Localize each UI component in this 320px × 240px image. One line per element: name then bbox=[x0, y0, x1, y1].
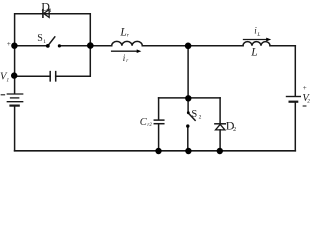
arrow iL head bbox=[266, 38, 271, 42]
switch S1 contact right bbox=[58, 44, 61, 47]
wire bottom rail bbox=[15, 150, 296, 152]
switch S1 contact left bbox=[46, 44, 50, 48]
diode D2 triangle bbox=[216, 124, 225, 129]
battery V1 plate short bbox=[11, 97, 19, 99]
battery V1 plate long bbox=[7, 101, 22, 103]
svg-text:+: + bbox=[303, 84, 307, 92]
svg-text:r: r bbox=[127, 33, 130, 39]
svg-text:L: L bbox=[250, 46, 257, 58]
capacitor snubber right plate bbox=[55, 72, 57, 81]
battery V2 plate long bbox=[287, 96, 301, 98]
capacitor snubber left plate bbox=[49, 72, 51, 81]
node dot junction B bbox=[87, 42, 94, 49]
node dot bottom S2 bbox=[185, 148, 191, 154]
switch S1 blade bbox=[48, 37, 55, 46]
diode D1 triangle bbox=[44, 10, 50, 18]
switch S2 contact bottom bbox=[186, 124, 189, 127]
svg-text:L: L bbox=[256, 32, 260, 38]
wire S1 left bbox=[15, 45, 48, 47]
wire left rail lower bbox=[14, 106, 16, 151]
svg-text:+: + bbox=[7, 39, 11, 48]
wire node A to L bbox=[188, 45, 243, 47]
wire cap row right bbox=[56, 46, 91, 76]
battery V1 plate short thick bbox=[11, 104, 19, 106]
svg-text:2: 2 bbox=[233, 127, 236, 133]
wire right rail upper bbox=[294, 46, 296, 96]
wire D2 branch upper bbox=[219, 98, 221, 124]
wire junction to Lr bbox=[90, 45, 111, 47]
wire right rail lower bbox=[294, 103, 296, 151]
wire node A down bbox=[187, 46, 189, 98]
capacitor Cr2 bottom plate bbox=[154, 123, 164, 125]
wire L to right rail bbox=[270, 45, 295, 47]
wire S1 right to junction bbox=[59, 45, 90, 47]
svg-text:r: r bbox=[126, 59, 128, 64]
wire Cr2 branch lower bbox=[158, 124, 160, 150]
svg-text:1: 1 bbox=[6, 77, 9, 83]
inductor Lr bbox=[112, 41, 143, 45]
minus sign V2 bbox=[303, 105, 306, 107]
svg-text:L: L bbox=[119, 26, 126, 38]
wire cap row left bbox=[15, 75, 51, 77]
switch S2 blade bbox=[189, 113, 196, 120]
node dot bottom Cr2 bbox=[155, 148, 161, 154]
wire left rail upper bbox=[14, 46, 16, 94]
arrow ir head bbox=[137, 49, 142, 53]
svg-text:S: S bbox=[37, 33, 43, 44]
svg-text:1: 1 bbox=[43, 39, 46, 45]
arrow ir shaft bbox=[112, 50, 138, 52]
node dot bottom D2 bbox=[217, 148, 223, 154]
wire D2 branch lower bbox=[219, 130, 221, 151]
svg-text:S: S bbox=[191, 109, 197, 120]
node dot left top bbox=[11, 43, 17, 49]
diode D1 cathode bar bbox=[42, 10, 44, 18]
minus sign V1 bbox=[1, 94, 4, 96]
wire Lr to node A bbox=[142, 45, 188, 47]
wire middle row bbox=[159, 97, 221, 99]
wire S2 branch lower bbox=[187, 126, 189, 151]
node dot V1 bbox=[11, 72, 17, 78]
wire Cr2 branch upper bbox=[158, 98, 160, 120]
node dot middle row bbox=[185, 95, 191, 101]
wire S2 branch upper bbox=[187, 98, 189, 112]
svg-text:2: 2 bbox=[199, 115, 202, 121]
battery V2 plate short thick bbox=[290, 101, 298, 103]
svg-text:1: 1 bbox=[49, 8, 52, 14]
node dot A bbox=[185, 43, 192, 50]
diode D2 cathode bar bbox=[215, 123, 226, 125]
arrow iL shaft bbox=[244, 39, 268, 41]
switch S2 contact top bbox=[187, 111, 190, 114]
svg-text:2: 2 bbox=[307, 99, 310, 105]
battery V1 plate long top bbox=[7, 93, 22, 95]
inductor L bbox=[243, 42, 270, 46]
wire top diode loop bbox=[15, 14, 91, 46]
svg-text:r2: r2 bbox=[147, 123, 152, 128]
capacitor Cr2 top plate bbox=[154, 119, 164, 121]
